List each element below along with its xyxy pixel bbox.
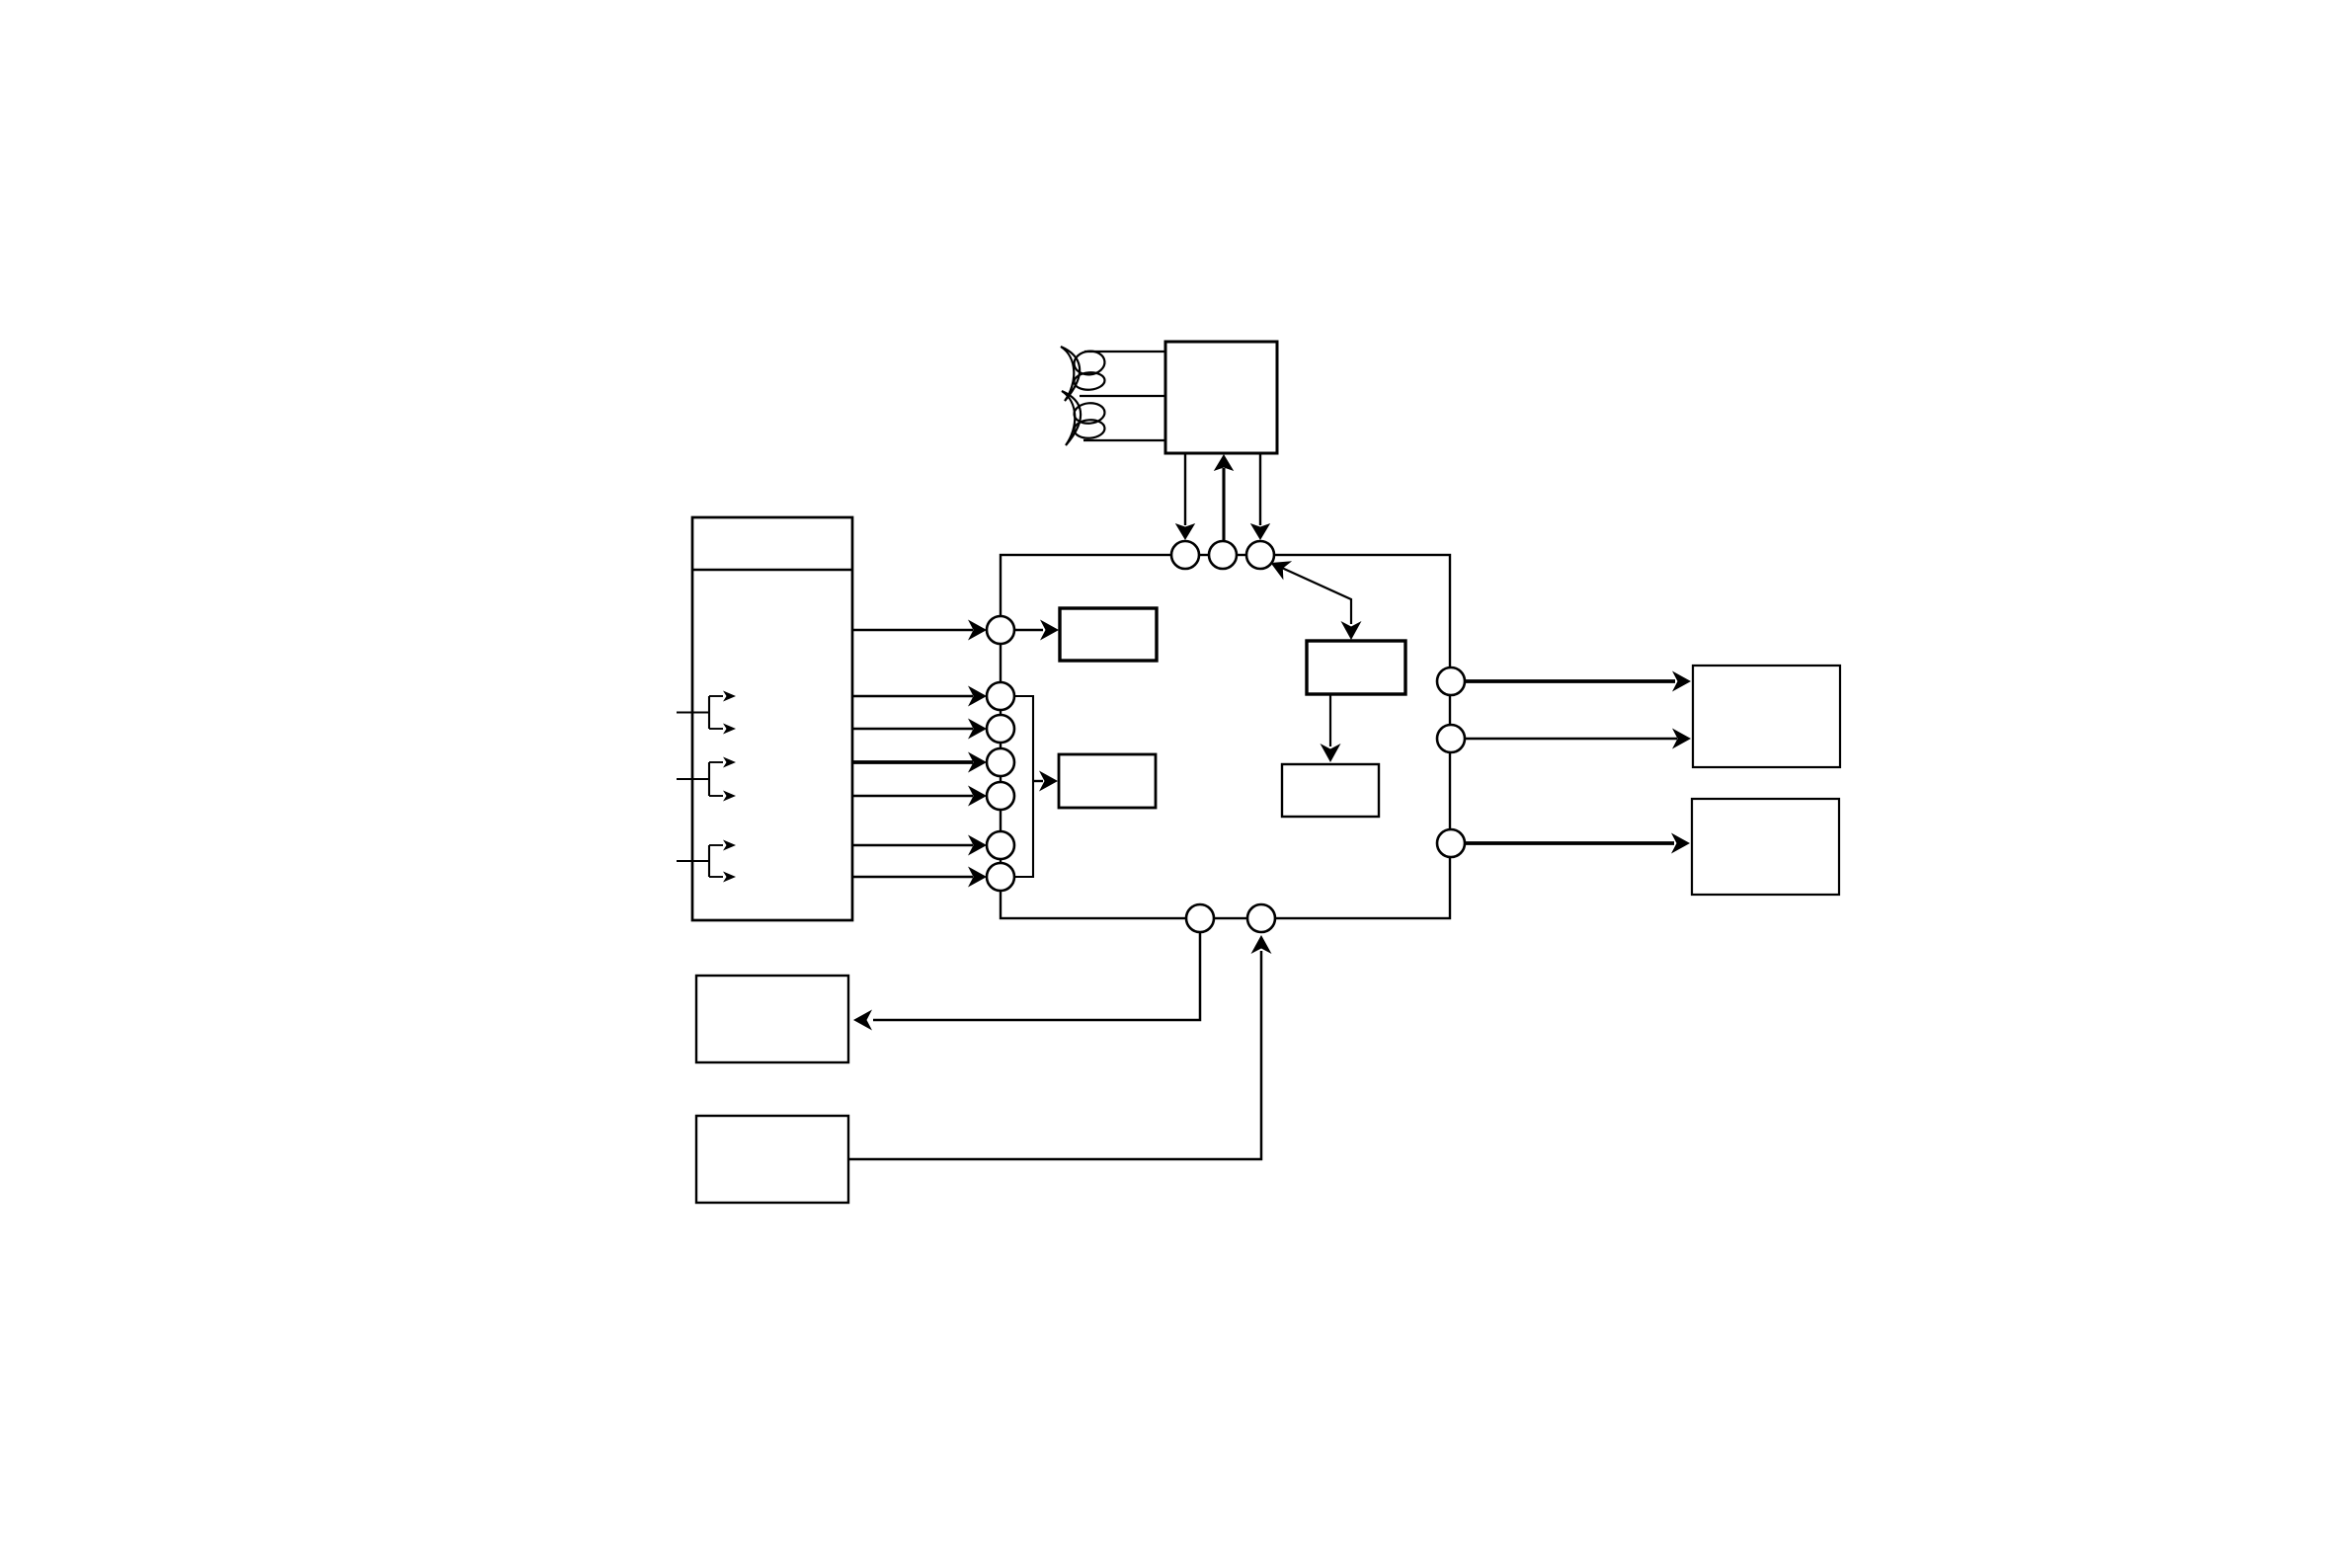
node R1 [1437,667,1465,695]
coil lead wire bottom [1083,439,1165,441]
block D [1282,764,1379,817]
U2 header divider [692,569,852,572]
block A [1060,608,1157,661]
wire block BL2 to node B2 [848,935,1272,1159]
block BL2 (lower left source) [696,1116,848,1203]
coil lead wire top [1084,351,1165,353]
switch S3 fork arrows [677,840,736,883]
node C6 [987,831,1014,859]
node R3 [1437,829,1465,857]
wire node R2 to block R1 [1464,729,1691,749]
wire U2 to node C6 [852,835,987,856]
inductor L2 [1062,391,1105,445]
node C7 [987,863,1014,891]
node T2 [1209,541,1237,569]
wire U2 to node C5 [852,786,987,807]
wire node R3 to block R2 [1464,833,1690,854]
node C5 [987,782,1014,810]
node C1 [987,616,1014,644]
block C [1307,641,1405,694]
wire U2 to node C4 [852,752,987,773]
wire node C1 to block A [1014,620,1059,641]
wire node R1 to block R1 [1464,671,1691,692]
wire U2 to node C1 [852,620,987,641]
coil lead wire middle [1080,395,1165,397]
node C3 [987,715,1014,743]
node T3 [1246,541,1274,569]
node R2 [1437,725,1465,752]
wire U2 to node C3 [852,719,987,740]
wire U2 to node C7 [852,867,987,888]
wire U1 pin3 down to node T3 [1250,453,1270,540]
switch S1 fork arrows [677,691,736,735]
node B2 [1247,904,1275,932]
bus bracket nodes C2-C7 [1014,696,1033,877]
block R2 (output device 2) [1692,799,1839,895]
wire block C to block D [1321,694,1341,762]
node B1 [1186,904,1214,932]
wire node T2 up to U1 [1214,454,1234,541]
wire U2 to node C2 [852,686,987,707]
block U2 (left interface module) [692,517,852,920]
antenna block U1 [1165,342,1277,453]
block B [1059,754,1156,808]
node C2 [987,682,1014,710]
block R1 (output device 1) [1693,666,1840,767]
wire node B1 to block BL1 [853,932,1200,1031]
wire U1 pin1 down to node T1 [1175,453,1195,540]
inductor L1 [1061,347,1106,401]
feedback wire node T3 to block C [1271,561,1362,640]
main unit U3 outline [1001,555,1450,918]
node T1 [1171,541,1199,569]
switch S2 fork arrows [677,757,736,802]
block BL1 (lower left device) [696,976,848,1062]
wire bracket to block B [1033,771,1058,792]
node C4 [987,748,1014,776]
